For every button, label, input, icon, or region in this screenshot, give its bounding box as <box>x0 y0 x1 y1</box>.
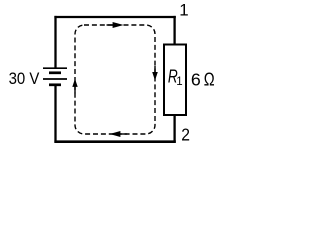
wire right upper (top rail to resistor) <box>173 16 175 45</box>
current loop (dashed rounded rectangle) <box>75 25 155 134</box>
value label 6 ohm <box>191 69 215 90</box>
wire bottom (node 2 rail) <box>54 140 175 143</box>
svg-text:1: 1 <box>179 1 188 20</box>
battery (30 V source) long plate top <box>43 67 67 69</box>
wire right lower (resistor to bottom rail) <box>173 115 175 143</box>
resistor R1 box <box>164 45 186 116</box>
svg-text:1: 1 <box>176 76 182 88</box>
battery long plate lower <box>43 78 67 80</box>
svg-text:2: 2 <box>181 125 190 145</box>
current arrow right (pointing down) <box>152 66 158 81</box>
current arrow top (pointing right) <box>107 22 124 28</box>
svg-text:Ω: Ω <box>204 69 215 90</box>
wire left lower (battery - plate to bottom rail) <box>54 86 56 143</box>
current arrow bottom (pointing left) <box>110 131 127 137</box>
wire left upper (top rail to battery + plate) <box>54 16 56 68</box>
current arrow left (pointing up) <box>72 79 77 94</box>
wire top (node 1 rail) <box>54 16 175 18</box>
reference designator R1 <box>168 67 183 88</box>
battery short plate bottom <box>49 83 61 86</box>
svg-text:30 V: 30 V <box>9 69 40 88</box>
svg-text:6: 6 <box>191 70 201 90</box>
battery short plate upper <box>49 71 61 74</box>
